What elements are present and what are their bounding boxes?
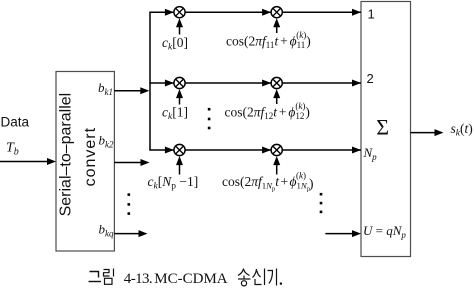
- wire: arrow into row1 spreading multiplier: [176, 18, 183, 34]
- block: summation unit: [361, 2, 411, 257]
- multiplier: row2 carrier: [271, 77, 282, 88]
- svg-text:U = qNp: U = qNp: [363, 223, 406, 240]
- wire: arrow into row3 carrier multiplier: [273, 156, 280, 174]
- wire: b_k1 to bus: [114, 87, 149, 94]
- svg-text:1: 1: [368, 7, 375, 22]
- dots: below row3 cos label: [320, 193, 323, 213]
- hangul: geu: [89, 272, 102, 282]
- wire: arrow into row2 carrier multiplier: [273, 89, 280, 104]
- hangul: sin: [253, 269, 265, 286]
- wire: arrow into row1 carrier multiplier: [273, 18, 280, 33]
- multiplier: row2 spreading: [174, 77, 185, 88]
- dots: between b_k2 and b_kq: [128, 193, 131, 215]
- wire: arrow into row3 spreading multiplier: [176, 156, 183, 174]
- caption: figure number and title: [89, 269, 283, 288]
- multiplier: row1 spreading: [174, 7, 185, 18]
- svg-text:MC-CDMA: MC-CDMA: [154, 271, 228, 287]
- wire: U input arrow: [325, 230, 361, 237]
- block: serial-to-parallel converter: [56, 72, 114, 252]
- caption: final period: [280, 283, 282, 285]
- hangul: song: [238, 269, 251, 286]
- wire: arrow into row2 spreading multiplier: [176, 89, 183, 104]
- wire: row 2 horizontal: [149, 80, 361, 87]
- svg-text:ck[1]: ck[1]: [162, 105, 188, 123]
- wire: output arrow: [411, 129, 444, 136]
- svg-text:Serial–to–parallel: Serial–to–parallel: [57, 93, 74, 217]
- wire: data input arrow: [0, 158, 56, 165]
- svg-text:convert: convert: [82, 127, 99, 186]
- hangul: rim: [104, 269, 114, 285]
- hangul: gi: [268, 269, 277, 286]
- svg-text:Data: Data: [1, 115, 30, 130]
- svg-text:4-13.: 4-13.: [124, 271, 152, 287]
- wire: vertical bus: [149, 12, 151, 150]
- svg-text:ck[0]: ck[0]: [162, 35, 188, 53]
- wire: b_k2 stub arrow: [114, 159, 149, 166]
- wire: row 3 horizontal: [149, 147, 361, 154]
- dots: between c_k[1] and cos label: [208, 108, 211, 129]
- wire: row 1 horizontal: [149, 9, 361, 16]
- svg-text:sk(t): sk(t): [451, 121, 473, 139]
- multiplier: row3 spreading: [174, 144, 185, 155]
- svg-text:Σ: Σ: [376, 115, 389, 140]
- svg-text:2: 2: [367, 71, 374, 86]
- multiplier: row3 carrier: [271, 144, 282, 155]
- multiplier: row1 carrier: [271, 7, 282, 18]
- wire: b_kq stub arrow: [114, 230, 147, 237]
